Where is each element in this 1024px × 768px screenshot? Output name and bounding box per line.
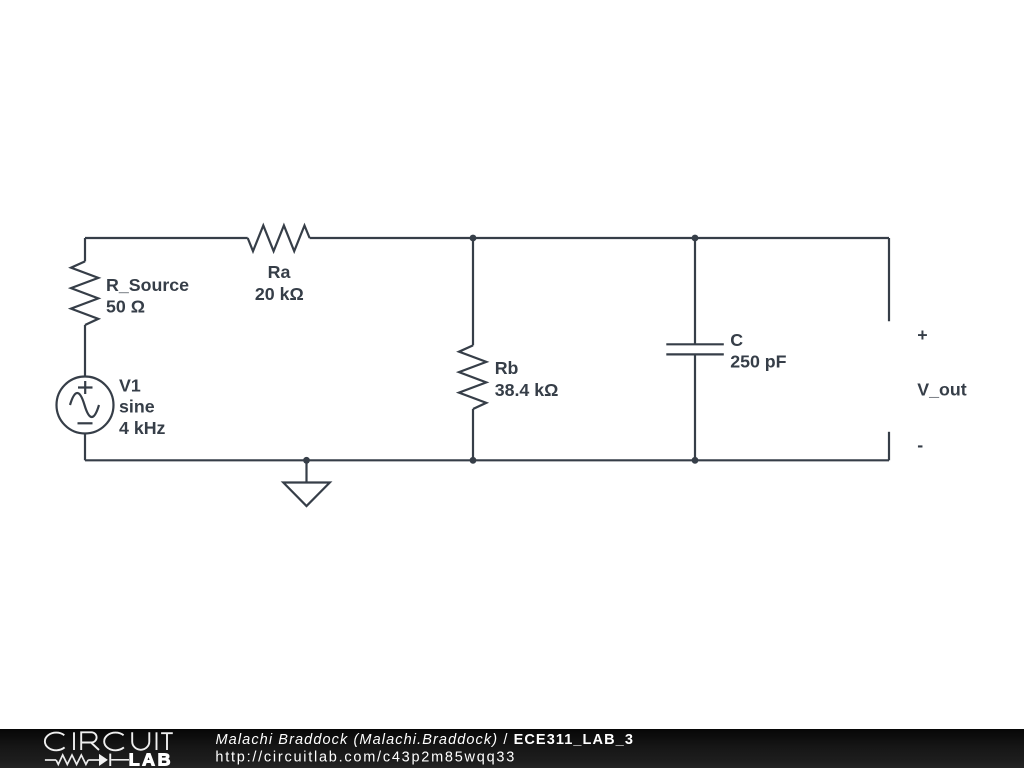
svg-text:Malachi Braddock (Malachi.Brad: Malachi Braddock (Malachi.Braddock) / EC…	[216, 732, 634, 748]
svg-text:http://circuitlab.com/c43p2m85: http://circuitlab.com/c43p2m85wqq33	[215, 750, 516, 766]
svg-text:4 kHz: 4 kHz	[119, 418, 166, 438]
svg-text:50 Ω: 50 Ω	[106, 297, 145, 317]
svg-text:R_Source: R_Source	[106, 275, 189, 295]
svg-text:+: +	[917, 325, 927, 345]
svg-text:sine: sine	[119, 396, 155, 416]
svg-text:V1: V1	[119, 376, 141, 396]
svg-text:-: -	[917, 435, 923, 455]
svg-text:V_out: V_out	[917, 380, 966, 400]
svg-text:20 kΩ: 20 kΩ	[255, 284, 304, 304]
svg-text:Ra: Ra	[268, 262, 291, 282]
svg-text:250 pF: 250 pF	[730, 352, 786, 372]
svg-text:LAB: LAB	[129, 750, 173, 768]
svg-text:C: C	[730, 330, 743, 350]
svg-text:Rb: Rb	[495, 358, 519, 378]
svg-text:38.4 kΩ: 38.4 kΩ	[495, 380, 559, 400]
